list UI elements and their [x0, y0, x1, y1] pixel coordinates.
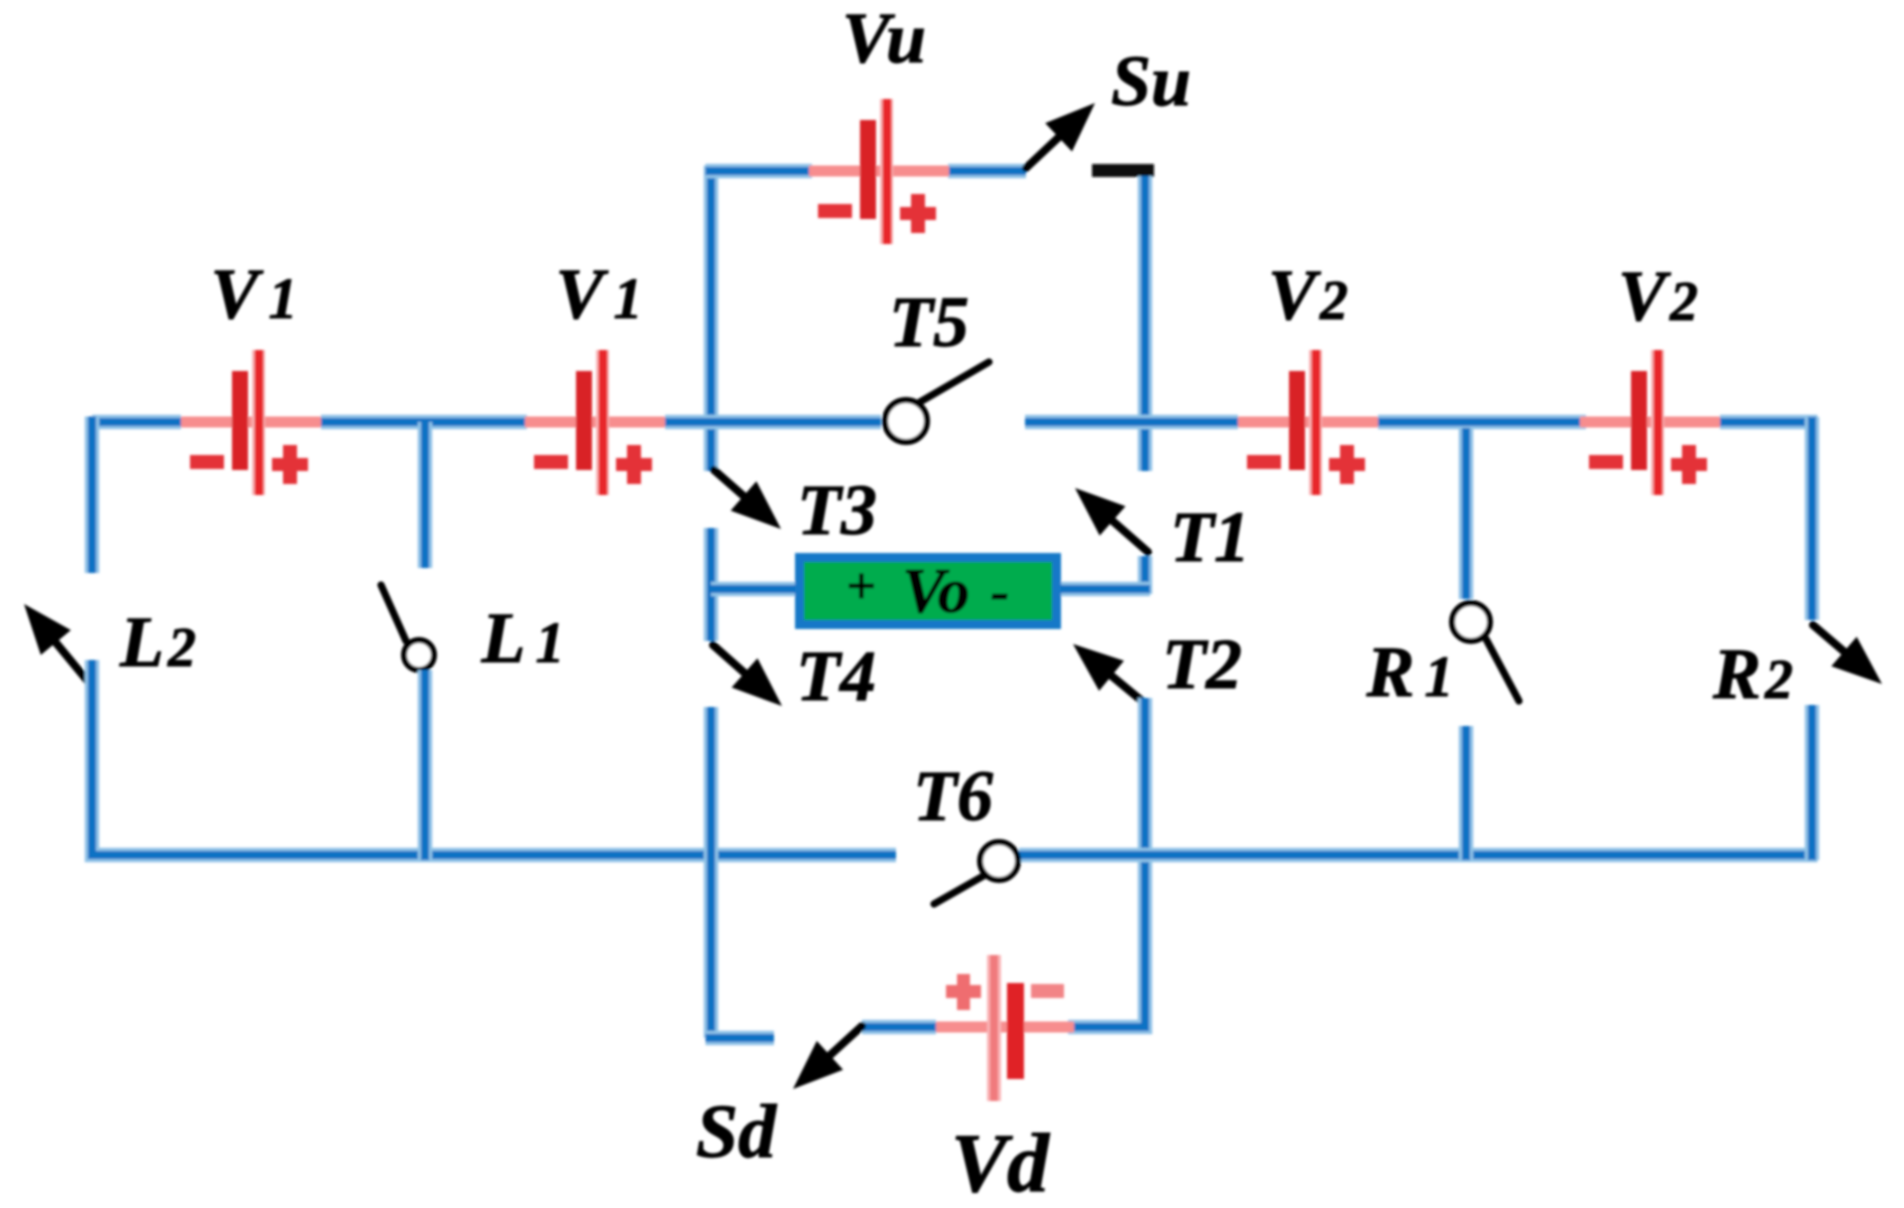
wire: Vd left lead	[862, 1020, 936, 1035]
svg-text:Vo: Vo	[902, 555, 970, 626]
svg-text:L1: L1	[481, 598, 565, 678]
battery V1 (left)	[181, 350, 321, 495]
wire: top-left horizontal to Vu	[706, 164, 813, 179]
wire: Vo box right lead	[1061, 582, 1150, 597]
wire: bus T5 to V2	[1025, 415, 1238, 430]
svg-text:R1: R1	[1365, 632, 1453, 712]
switch Sd arrow	[793, 1026, 862, 1089]
wire: bottom bus right segment	[1019, 848, 1818, 863]
switch T2 arrow	[1073, 644, 1148, 706]
switch T5 lever	[920, 362, 989, 402]
wire: Vo box left lead	[711, 582, 795, 597]
svg-text:T3: T3	[797, 470, 877, 550]
switch T3 arrow	[714, 470, 781, 529]
svg-text:V1: V1	[210, 254, 297, 334]
wire: right rail upper (R2 top)	[1805, 417, 1820, 620]
switch R2 arrow	[1813, 625, 1882, 684]
svg-text:-: -	[991, 561, 1010, 623]
svg-text:T6: T6	[913, 756, 993, 836]
battery V2 (right)	[1580, 350, 1720, 495]
wire: bus right end	[1720, 415, 1818, 430]
svg-text:Sd: Sd	[696, 1090, 777, 1174]
wire: bus between V1 batteries	[321, 415, 527, 430]
svg-text:Vu: Vu	[842, 0, 926, 78]
switch R1 lever	[1486, 639, 1519, 701]
wire: R1 branch lower	[1459, 726, 1474, 860]
switch T1 arrow	[1075, 488, 1148, 552]
svg-text:Vd: Vd	[951, 1117, 1051, 1203]
battery V2 (left)	[1238, 350, 1378, 495]
switch L2 arrow	[24, 604, 95, 690]
wire: Su vertical down to T1 (crosses top bus)	[1138, 176, 1153, 471]
svg-text:V1: V1	[555, 254, 642, 334]
Su fixed contact bar	[1092, 164, 1154, 177]
switch T6 lever	[934, 875, 985, 904]
wire: R1 branch upper	[1459, 428, 1474, 599]
svg-text:T4: T4	[796, 636, 876, 716]
output box Vo	[800, 558, 1057, 625]
wire: bus left end	[92, 415, 181, 430]
switch R1 contact circle	[1452, 603, 1490, 641]
wire: bus V1 to T5	[665, 415, 881, 430]
wire: L1 branch upper	[418, 422, 433, 568]
switch T5 contact circle	[885, 400, 927, 442]
wire: Vu to Su switch	[948, 164, 1026, 179]
battery V1 (right)	[525, 350, 665, 495]
wire: left rail upper (L2 top)	[85, 417, 100, 574]
switch L1 contact circle	[404, 640, 434, 670]
wire: left vertical of Vu loop (top of T3)	[704, 166, 719, 472]
svg-text:T1: T1	[1170, 497, 1250, 577]
switch T4 arrow	[713, 645, 782, 706]
wire: right stub above Vo box lead	[1138, 556, 1153, 594]
battery Vd	[934, 955, 1074, 1101]
switch T6 contact circle	[980, 842, 1018, 880]
wire: center-right vertical lower + Vd right corner	[1068, 698, 1145, 1027]
wire: left rail lower + bottom bus left segment	[92, 660, 896, 855]
battery Vu	[809, 99, 949, 244]
wire: right rail lower	[1805, 705, 1820, 860]
svg-text:Su: Su	[1111, 41, 1191, 121]
svg-text:T2: T2	[1162, 624, 1242, 704]
wire: left stub above Vo box	[704, 528, 719, 641]
wire: Sd fixed contact foot	[706, 1031, 775, 1046]
wire: bus between V2 batteries	[1378, 415, 1586, 430]
wire: L1 branch lower	[418, 670, 433, 860]
wire: center-left vertical lower (T4 to Sd)	[704, 707, 719, 1038]
svg-text:+: +	[846, 558, 876, 615]
svg-text:T5: T5	[889, 282, 969, 362]
switch L1 lever	[381, 585, 406, 641]
switch Su arrow	[1026, 103, 1095, 168]
